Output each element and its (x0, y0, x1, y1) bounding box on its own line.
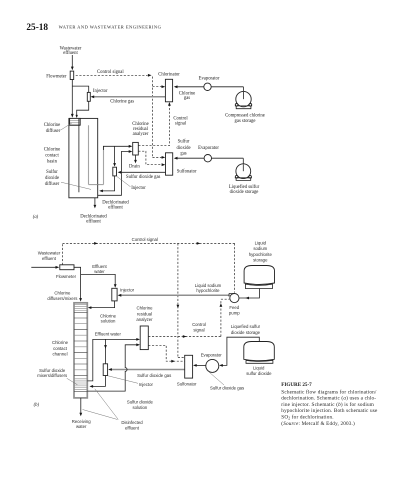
wire flowmeter to injector branch (72, 86, 88, 92)
sample wire channel bottom to analyzer (b) with hop (87, 345, 138, 391)
label control signal (a) mid (173, 117, 188, 127)
svg-text:analyzer: analyzer (136, 317, 153, 322)
sulfur dioxide gas wire sulfonator to injector (119, 171, 165, 173)
pointer sulfur dioxide mixers (67, 378, 78, 385)
control dashed analyzer to feed pump (148, 299, 229, 336)
control signal dashed from flowmeter (b) (63, 243, 235, 357)
liquefied sulfur dioxide storage tank (b) (244, 342, 274, 364)
svg-text:Sulfur: Sulfur (178, 140, 190, 145)
label liquid sulfur dioxide (246, 366, 272, 376)
control signal dashed: analyzer to sulfonator lower port (138, 151, 161, 165)
label chlorine residual analyzer (b) (136, 306, 153, 323)
svg-text:solution: solution (132, 405, 147, 410)
svg-text:sodium: sodium (253, 246, 267, 251)
svg-text:Chlorine: Chlorine (52, 340, 69, 345)
svg-text:FIGURE 25-7: FIGURE 25-7 (281, 382, 312, 388)
svg-text:gas storage: gas storage (235, 119, 256, 124)
svg-text:dechlorination. Schematic (a): dechlorination. Schematic (a) uses a chl… (281, 395, 376, 402)
feed pump (229, 294, 239, 303)
label sulfur dioxide diffuser (45, 170, 60, 187)
chlorine gas pipe chlorinator to injector (92, 96, 165, 98)
svg-text:residual: residual (137, 311, 152, 316)
compressed chlorine gas storage tank (235, 91, 252, 108)
label chlorine residual analyzer (a) (132, 122, 149, 137)
label chlorine contact basin (44, 147, 60, 164)
arrowhead control mid 2 (197, 242, 201, 245)
arrowhead into injector lower top (113, 163, 116, 167)
arrowhead SO2 solution into basin (99, 190, 103, 193)
arrowhead chlorine solution into channel (88, 306, 92, 309)
label chlorine diffuser (44, 123, 61, 134)
svg-text:Control: Control (192, 322, 206, 327)
svg-text:mixers/diffusers: mixers/diffusers (37, 373, 67, 378)
label sulfur dioxide mixers/diffusers (37, 368, 67, 378)
arrowhead SO2 solution into channel (89, 385, 93, 388)
label chlorine diffusers/mixers (47, 291, 77, 301)
label receiving water (72, 419, 91, 429)
arrowhead into sulfonator upper port (162, 156, 166, 159)
svg-text:hypochlorite injection. Both s: hypochlorite injection. Both schematic u… (281, 408, 378, 414)
label liquefied sulfur dioxide storage (b) (231, 324, 261, 335)
arrowhead into injector (b) upper (114, 284, 117, 288)
label dechlorinated effluent right (102, 200, 129, 210)
pointer injector (a) lower (117, 176, 131, 187)
figure caption (281, 382, 378, 427)
svg-text:Schematic flow diagrams for ch: Schematic flow diagrams for chlorination… (281, 388, 377, 395)
svg-text:Evaporator: Evaporator (201, 353, 223, 358)
svg-text:Disinfected: Disinfected (121, 420, 143, 425)
chlorine contact basin tank (69, 118, 98, 197)
basin outlet drain wire (94, 198, 96, 207)
label compressed chlorine gas storage (225, 114, 265, 124)
svg-text:WATER AND WASTEWATER ENGINEERI: WATER AND WASTEWATER ENGINEERING (59, 25, 162, 30)
svg-text:(b): (b) (34, 403, 40, 408)
wire receiving water outfall (80, 398, 82, 415)
svg-text:solution: solution (101, 319, 116, 324)
wire injector return to basin (101, 176, 115, 191)
svg-text:(Source: Metcalf & Eddy, 2003.: (Source: Metcalf & Eddy, 2003.) (281, 420, 355, 427)
arrowhead control mid right (183, 335, 187, 338)
arrowhead into diffuser box (76, 115, 78, 118)
svg-text:Evaporator: Evaporator (198, 146, 219, 151)
svg-text:25-18: 25-18 (26, 23, 48, 33)
svg-text:dioxide: dioxide (45, 176, 59, 181)
pointer sulfur dioxide gas (b) right (207, 370, 225, 385)
wire injector (b) return to channel (91, 376, 106, 387)
svg-text:channel: channel (52, 352, 67, 357)
svg-text:Sulfur dioxide: Sulfur dioxide (127, 400, 154, 405)
control signal dashed: analyzer to chlorinator (138, 104, 169, 146)
sample pipe from basin to analyzer (gray riser) (89, 125, 104, 184)
svg-text:hypochlorite: hypochlorite (249, 252, 273, 257)
sample wire basin bottom to analyzer lower port (98, 152, 131, 196)
sodium hypochlorite storage tank (244, 266, 274, 289)
label chlorine gas (two line) (179, 92, 195, 102)
pointer disinfected effluent upper (95, 389, 119, 420)
control dashed analyzer to sulfonator (b) (148, 345, 184, 361)
label liquid sodium hypochlorite (pipe) (195, 283, 222, 293)
svg-text:water: water (76, 424, 87, 429)
basin internal baffle (78, 119, 80, 193)
arrowhead into chlorinator right (174, 85, 178, 88)
svg-text:Liquefied sulfur: Liquefied sulfur (229, 185, 260, 190)
analyzer drain wire (135, 155, 137, 162)
svg-text:Effluent water: Effluent water (95, 332, 122, 337)
chlorine contact channel (b) (74, 303, 87, 398)
svg-text:contact: contact (45, 153, 59, 158)
svg-text:effluent: effluent (63, 51, 78, 56)
label liquid sodium hypochlorite storage (249, 240, 273, 262)
arrowhead control down to sulfonator mid (177, 305, 180, 309)
arrowhead drain (134, 160, 137, 164)
arrowhead into analyzer (b) lower (136, 343, 140, 346)
arrowhead into flowmeter (a) (71, 67, 74, 71)
arrowhead into evaporator (b) (219, 364, 223, 367)
svg-text:Flowmeter: Flowmeter (56, 274, 77, 279)
svg-text:Receiving: Receiving (72, 419, 91, 424)
svg-text:Injector: Injector (93, 89, 108, 94)
arrowhead into flowmeter (b) (56, 266, 60, 269)
label effluent water (b) top (92, 264, 107, 274)
label dechlorinated effluent bottom (80, 214, 107, 224)
arrowhead SO2 gas into injector (b) (108, 368, 112, 371)
svg-text:analyzer: analyzer (133, 132, 149, 137)
label liquefied sulfur dioxide storage (a) (229, 185, 260, 195)
label wastewater effluent (a) (60, 47, 82, 57)
arrowhead control mid 1 (94, 242, 98, 245)
svg-text:water: water (94, 269, 105, 274)
svg-text:Evaporator: Evaporator (199, 77, 220, 82)
svg-text:diffuser: diffuser (46, 129, 61, 134)
arrowhead into sulfonator (b) right (193, 364, 197, 367)
svg-text:contact: contact (53, 346, 68, 351)
arrowhead into sulfonator right (174, 157, 178, 160)
chlorine residual analyzer (b) (140, 326, 148, 350)
svg-text:Chlorine: Chlorine (44, 123, 60, 128)
arrowhead chlorine gas into injector (91, 95, 95, 98)
hypochlorite solution pipe pump to injector (119, 294, 230, 296)
chlorine diffuser box (70, 118, 81, 125)
wire hypochlorite tank to feed pump (236, 289, 260, 299)
evaporator (a) chlorine (204, 83, 211, 90)
svg-text:gas: gas (180, 152, 186, 157)
arrowhead hypochlorite suction (245, 297, 249, 300)
sulfonator (a) (166, 153, 173, 175)
svg-text:dioxide storage: dioxide storage (231, 330, 261, 335)
wire flowmeter to channel (b) (74, 267, 81, 300)
label chlorine solution (100, 314, 117, 324)
control signal dashed: flowmeter to chlorinator and sulfonator (76, 75, 162, 157)
wire evaporator to chlorinator (175, 87, 243, 99)
arrowhead control corner right (148, 74, 152, 77)
injector (b) lower (103, 364, 107, 376)
wire SO2 tank to evaporator (b) (221, 337, 260, 365)
svg-text:Feed: Feed (229, 305, 239, 310)
liquefied sulfur dioxide storage tank (a) (235, 164, 252, 181)
svg-text:Sulfur dioxide gas: Sulfur dioxide gas (126, 175, 161, 180)
wire to injector (a) lower (114, 146, 116, 165)
svg-text:dioxide: dioxide (176, 146, 190, 151)
label sulfur dioxide solution (127, 400, 154, 411)
arrowhead into chlorinator left (162, 85, 166, 88)
svg-text:sulfur dioxide: sulfur dioxide (246, 371, 272, 376)
svg-text:effluent: effluent (125, 426, 140, 431)
sulfur dioxide gas pipe sulfonator to injector (b) (110, 369, 185, 371)
page header (26, 23, 161, 33)
svg-text:Chlorine: Chlorine (44, 147, 60, 152)
svg-text:Injector: Injector (120, 288, 135, 293)
arrowhead into sulfonator lower port (162, 163, 166, 166)
svg-text:signal: signal (175, 121, 187, 126)
svg-text:Flowmeter: Flowmeter (46, 74, 67, 79)
svg-text:Chlorinator: Chlorinator (158, 73, 180, 78)
channel hatch lines (74, 305, 87, 392)
wire wastewater inlet (b) (31, 266, 57, 268)
pointer chlorine diffuser (61, 123, 73, 130)
arrowhead into analyzer lower (129, 150, 133, 153)
svg-text:rine injector. Schematic (b) i: rine injector. Schematic (b) is for sodi… (281, 401, 374, 408)
svg-text:Wastewater: Wastewater (38, 250, 61, 255)
wire evaporator (b) to sulfonator (194, 364, 206, 366)
wire wastewater effluent inlet (71, 55, 73, 116)
svg-text:Chlorine: Chlorine (54, 291, 71, 296)
arrowhead into analyzer (b) upper (136, 338, 140, 341)
arrowhead into contact basin top (71, 114, 74, 118)
svg-text:Drain: Drain (129, 165, 140, 170)
svg-text:storage: storage (253, 258, 268, 263)
svg-text:Control signal: Control signal (132, 237, 158, 242)
injector (b) upper (112, 288, 117, 301)
svg-text:Liquid: Liquid (255, 240, 267, 245)
arrowhead SO2 gas into injector (118, 171, 122, 174)
chlorinator U1 (165, 79, 172, 102)
basin sample pickup pipe (gray, redraw over tank) (89, 125, 98, 184)
svg-text:basin: basin (47, 159, 58, 164)
svg-text:Effluent: Effluent (92, 264, 107, 269)
sulfonator (b) (185, 355, 193, 378)
svg-text:hypochlorite: hypochlorite (196, 288, 220, 293)
svg-text:diffusers/mixers: diffusers/mixers (47, 296, 77, 301)
arrowhead into analyzer upper (129, 145, 133, 148)
svg-text:Liquefied sulfur: Liquefied sulfur (231, 324, 261, 329)
effluent water suction wire from channel (87, 339, 138, 381)
wire injector outlet to chlorine diffuser (77, 101, 89, 116)
svg-text:effluent: effluent (108, 206, 123, 211)
injector (a) lower (113, 167, 117, 176)
evaporator (b) (206, 359, 219, 372)
svg-text:Sulfur: Sulfur (46, 170, 58, 175)
svg-text:(a): (a) (33, 215, 39, 220)
svg-text:dioxide storage: dioxide storage (230, 190, 259, 195)
arrowhead dechlorinated effluent down (94, 205, 97, 209)
svg-text:SO2 for dechlorination.: SO2 for dechlorination. (281, 414, 334, 421)
evaporator (a) sulfur dioxide (204, 155, 211, 162)
arrowhead into mixers box (79, 298, 82, 302)
arrowhead control up to pump (220, 303, 223, 307)
svg-text:pump: pump (229, 310, 240, 315)
svg-text:Sulfur dioxide gas: Sulfur dioxide gas (137, 373, 171, 378)
arrowhead receiving water (79, 413, 82, 417)
wire injector (b) to channel chlorine solution (89, 301, 115, 308)
injector (a) upper (87, 92, 90, 101)
svg-text:diffuser: diffuser (45, 182, 60, 187)
arrowhead control into sulfonator (b) (171, 360, 175, 363)
svg-text:Chlorine: Chlorine (136, 306, 153, 311)
svg-text:Injector: Injector (139, 382, 154, 387)
label disinfected effluent (121, 420, 143, 431)
arrowhead mid down to injector (104, 345, 107, 349)
wire effluent water branch to injector (b) upper (81, 274, 116, 286)
flowmeter (b) (60, 265, 74, 270)
svg-text:Control signal: Control signal (97, 70, 124, 75)
svg-text:Sulfonator: Sulfonator (177, 169, 197, 174)
svg-text:Sulfur dioxide gas: Sulfur dioxide gas (210, 386, 244, 391)
svg-text:gas: gas (184, 96, 190, 101)
label sulfur dioxide gas (right) (176, 140, 190, 157)
svg-text:effluent: effluent (42, 256, 57, 261)
label chlorine contact channel (52, 340, 69, 357)
wire branch down to injector (b) lower (105, 339, 107, 363)
svg-text:signal: signal (193, 327, 204, 332)
label control signal (b) mid (192, 322, 206, 332)
svg-text:effluent: effluent (86, 220, 101, 225)
svg-text:Injector: Injector (131, 186, 146, 191)
sample wire to analyzer top port (103, 146, 130, 150)
pointer sulfur dioxide diffuser (61, 182, 91, 189)
arrowhead hypochlorite into injector (118, 294, 122, 297)
svg-text:Sulfonator: Sulfonator (177, 382, 197, 387)
chlorine residual analyzer (a) (133, 142, 139, 155)
wire evaporator to sulfonator (175, 158, 243, 170)
arrowhead up into chlorinator bottom (168, 102, 171, 106)
pointer disinfected effluent lower (83, 410, 118, 420)
svg-text:Chlorine gas: Chlorine gas (110, 99, 134, 104)
label feed pump (229, 305, 240, 315)
pointer injector (b) lower (108, 376, 138, 384)
label wastewater effluent (b) (38, 250, 61, 260)
flowmeter (a) (70, 71, 74, 79)
